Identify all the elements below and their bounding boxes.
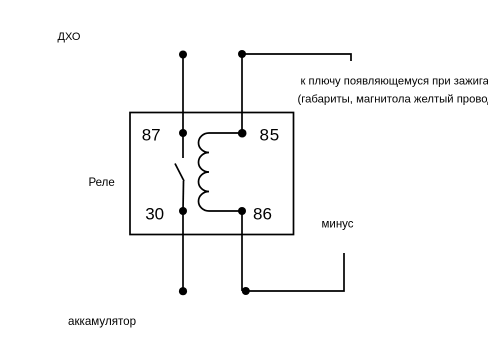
node top-left (wire to ДХО)	[179, 51, 187, 59]
node top-right (ignition feed)	[238, 50, 246, 58]
pin label 87	[142, 126, 161, 145]
wire bottom-right node to minus lead	[245, 253, 344, 291]
pin label 30	[145, 204, 164, 223]
node bottom-right (to minus)	[242, 287, 250, 295]
svg-text:87: 87	[142, 126, 161, 145]
svg-text:(габариты, магнитола желтый пр: (габариты, магнитола желтый провод)	[298, 94, 488, 106]
label аккамулятор (battery)	[68, 315, 136, 328]
wire pin 30 down to battery node	[182, 211, 184, 291]
svg-text:ДХО: ДХО	[58, 31, 81, 43]
switch contact 87-30 (open)	[175, 133, 184, 211]
node pin 86	[238, 207, 246, 215]
note line 1: к плючу появляющемуся при зажигании	[301, 76, 488, 88]
node pin 30	[179, 207, 187, 215]
label ДХО (daytime running lights)	[58, 31, 81, 43]
relay K1 body	[130, 113, 294, 235]
pin label 86	[253, 205, 272, 224]
label Реле	[89, 177, 115, 189]
svg-text:аккамулятор: аккамулятор	[68, 315, 136, 328]
pin label 85	[260, 126, 281, 145]
svg-text:85: 85	[260, 126, 281, 145]
wire top-left node down to pin 87	[182, 55, 184, 134]
note line 2: (габариты, магнитола желтый провод)	[298, 94, 488, 106]
relay coil 85-86	[199, 133, 243, 211]
svg-text:к плючу появляющемуся при зажи: к плючу появляющемуся при зажигании	[301, 76, 488, 88]
wire pin 86 down to minus node	[241, 211, 243, 291]
svg-text:минус: минус	[322, 219, 354, 231]
node pin 87	[179, 129, 187, 137]
svg-text:30: 30	[145, 204, 164, 223]
svg-text:86: 86	[253, 205, 272, 224]
svg-text:Реле: Реле	[89, 177, 115, 189]
node pin 85	[238, 129, 247, 138]
label минус	[322, 219, 354, 231]
wire top-right node to ignition key tap	[242, 54, 351, 61]
wire top-right node down to pin 85	[241, 54, 243, 133]
node bottom-left (battery)	[179, 287, 187, 295]
